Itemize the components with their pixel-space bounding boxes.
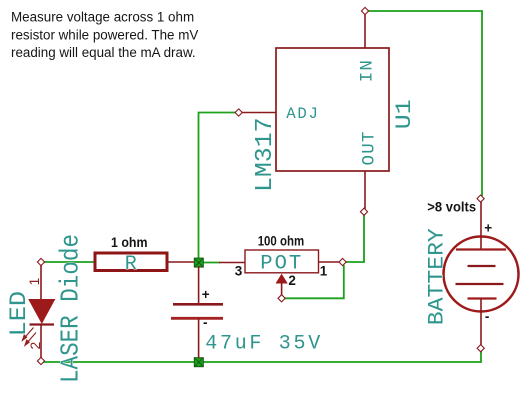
battery plate short 2 — [468, 297, 497, 299]
svg-text:100 ohm: 100 ohm — [258, 234, 305, 249]
junction node at R/ADJ/cap — [194, 258, 203, 267]
junction diamond at OUT — [360, 208, 367, 215]
svg-text:resistor while powered. The mV: resistor while powered. The mV — [11, 27, 198, 42]
junction diamond at wiper — [278, 295, 285, 302]
capacitor plate + — [173, 303, 223, 306]
LED arrow 1 — [23, 328, 34, 341]
wire: bottom rail — [43, 351, 481, 362]
svg-text:+: + — [484, 220, 492, 235]
POT pin1 stub — [319, 261, 340, 263]
capacitor C1 stub top — [198, 266, 200, 304]
junction diamond at ADJ — [235, 109, 242, 116]
note text — [11, 10, 198, 60]
wire: LED anode to R — [44, 261, 94, 263]
LED / laser diode D1 — [23, 265, 55, 359]
svg-text:LASER Diode: LASER Diode — [56, 234, 86, 383]
svg-text:OUT: OUT — [360, 130, 380, 165]
svg-text:-: - — [485, 309, 490, 324]
svg-text:LED: LED — [6, 291, 32, 336]
POT pin3 stub — [219, 262, 245, 264]
wire: OUT down to POT pin1 — [346, 215, 364, 263]
battery B1 — [444, 202, 519, 346]
junction diamond at POT pin1 — [339, 258, 346, 265]
svg-text:-: - — [203, 315, 208, 330]
anode wire — [40, 265, 42, 300]
junction diamond at LED cathode — [37, 357, 44, 364]
U1 pin IN stub — [364, 14, 366, 48]
wire: wiper to pin1 — [285, 265, 344, 298]
svg-text:>8 volts: >8 volts — [427, 200, 476, 215]
svg-text:LM317: LM317 — [252, 118, 279, 193]
battery plate long 2 — [456, 283, 504, 285]
battery plate short 1 — [468, 265, 496, 267]
svg-text:1: 1 — [26, 278, 42, 286]
junction node at cap/bottom rail — [194, 358, 203, 367]
POT wiper arrow — [276, 275, 286, 296]
resistor R box — [95, 253, 167, 271]
junction diamond at LED anode — [37, 258, 44, 265]
cathode wire — [40, 325, 42, 359]
diode triangle — [29, 300, 55, 324]
wire: ADJ to node — [199, 113, 237, 260]
junction diamond at battery - — [477, 345, 484, 352]
svg-text:+: + — [202, 287, 210, 302]
resistor right stub — [168, 261, 194, 263]
capacitor stub bottom — [198, 318, 200, 358]
junction diamond at battery + — [477, 195, 484, 202]
battery bottom wire — [480, 299, 482, 346]
battery plate long 1 — [456, 248, 506, 250]
LED arrow 2 — [25, 333, 36, 346]
svg-text:ADJ: ADJ — [286, 105, 319, 123]
svg-text:BATTERY: BATTERY — [425, 228, 450, 325]
U1 pin OUT stub — [364, 171, 366, 209]
op-amp U1 LM317 box — [276, 48, 389, 171]
battery circle — [444, 237, 519, 312]
U1 pin ADJ stub — [242, 112, 277, 114]
svg-text:POT: POT — [260, 252, 303, 275]
wire: IN top rail — [368, 11, 482, 196]
svg-text:2: 2 — [27, 342, 43, 350]
svg-text:47uF 35V: 47uF 35V — [205, 332, 323, 355]
svg-text:1: 1 — [320, 263, 328, 278]
svg-text:U1: U1 — [391, 99, 417, 129]
svg-text:2: 2 — [288, 273, 296, 288]
battery top wire — [480, 202, 482, 250]
svg-text:3: 3 — [235, 264, 243, 279]
wire: node to POT pin3 — [203, 262, 220, 264]
cathode bar — [30, 323, 55, 325]
svg-text:Measure voltage across 1 ohm: Measure voltage across 1 ohm — [11, 10, 194, 25]
svg-text:1 ohm: 1 ohm — [111, 235, 148, 250]
svg-text:reading will equal the mA draw: reading will equal the mA draw. — [11, 45, 196, 60]
svg-text:R: R — [125, 253, 137, 276]
potentiometer POT box — [245, 250, 319, 273]
junction diamond at IN — [361, 7, 368, 14]
capacitor plate - — [171, 317, 223, 320]
svg-text:IN: IN — [358, 59, 378, 82]
